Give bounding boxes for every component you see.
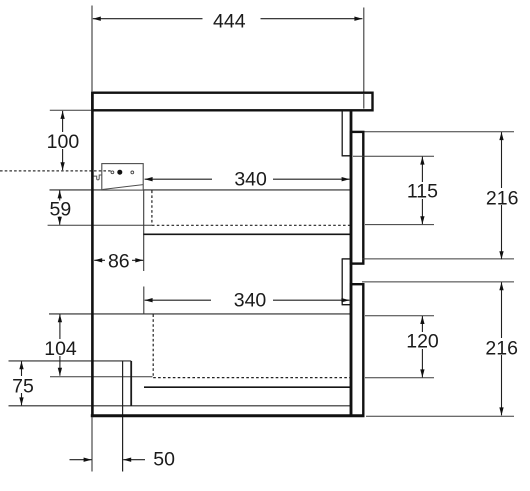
carcass front vertical bbox=[350, 111, 353, 417]
dimension 75 bbox=[21, 361, 23, 405]
dimension 86 bbox=[94, 259, 143, 261]
wall bracket diagonal bbox=[102, 185, 143, 190]
svg-text:340: 340 bbox=[234, 290, 267, 312]
side strip R1 below countertop bbox=[341, 112, 343, 156]
extension line 444 left bbox=[91, 6, 93, 92]
dimension 340 second bbox=[145, 299, 350, 301]
dimension 115 bbox=[421, 157, 423, 225]
dimension 104 bbox=[59, 314, 61, 375]
drawer2 rail line bbox=[144, 386, 351, 388]
extension 216 first bottom / strip R2 top bbox=[342, 258, 351, 260]
bracket screw filled bbox=[117, 170, 122, 175]
extension line 340 second left bbox=[143, 287, 145, 315]
extension line countertop bottom left bbox=[50, 109, 91, 111]
extension line 444 right through countertop bbox=[363, 94, 365, 109]
plinth bar right edge bbox=[130, 361, 132, 406]
wall bracket body bbox=[102, 164, 143, 191]
countertop bbox=[92, 93, 372, 111]
dimension 50 left arrow bbox=[70, 459, 92, 461]
label 100 bbox=[43, 132, 81, 149]
label 340 second bbox=[211, 291, 273, 309]
label 115 bbox=[404, 182, 441, 199]
extension 216 first bottom right part bbox=[363, 258, 515, 260]
side strip R2 between drawers bbox=[341, 259, 343, 305]
extension line 444 right bbox=[363, 8, 365, 109]
label 340 first bbox=[212, 170, 273, 188]
dimension 100 bbox=[62, 111, 64, 170]
label 216 second bbox=[485, 338, 523, 355]
dimension 216 first bbox=[501, 132, 503, 259]
label 444 bbox=[203, 11, 261, 29]
bottom panel top edge bbox=[9, 405, 352, 407]
svg-text:216: 216 bbox=[486, 187, 519, 209]
drawer1 rim line bbox=[50, 189, 352, 191]
cabinet bottom bbox=[91, 414, 365, 417]
svg-text:216: 216 bbox=[485, 338, 518, 360]
bracket hook bbox=[94, 175, 102, 180]
extension 115 bottom bbox=[365, 224, 434, 226]
bracket hole right bbox=[131, 171, 134, 174]
drawer1 dashed box bbox=[152, 191, 351, 226]
extension line 50 left bbox=[91, 417, 93, 471]
svg-text:115: 115 bbox=[407, 181, 438, 203]
dimension 444 bbox=[93, 18, 363, 20]
extension line 50 right / plinth bar left edge bbox=[122, 361, 124, 472]
extension line 75 top / plinth bar top bbox=[9, 360, 132, 362]
label 216 first bbox=[485, 188, 523, 205]
svg-text:340: 340 bbox=[234, 169, 267, 191]
extension 216 second top bbox=[362, 281, 514, 283]
extension 120 bottom bbox=[365, 377, 434, 379]
svg-text:100: 100 bbox=[47, 131, 80, 153]
dimension 50 right arrow bbox=[123, 459, 145, 461]
dimension 340 first bbox=[145, 178, 350, 180]
bracket hole left bbox=[111, 171, 114, 174]
svg-text:444: 444 bbox=[213, 10, 246, 32]
extension line 59 bottom bbox=[48, 224, 152, 226]
label 59 bbox=[48, 201, 74, 217]
extension line 104 bottom bbox=[50, 376, 153, 378]
extension line 86 right bbox=[143, 191, 145, 272]
svg-text:75: 75 bbox=[12, 375, 34, 397]
label 86 bbox=[105, 252, 132, 269]
extension 115 top bbox=[353, 155, 434, 157]
extension 216 second bottom bbox=[366, 415, 514, 417]
label 75 bbox=[10, 376, 37, 393]
dimension 216 second bbox=[501, 282, 503, 415]
drawer front D1 bbox=[351, 132, 363, 264]
svg-text:86: 86 bbox=[108, 250, 130, 272]
label 104 bbox=[42, 339, 80, 356]
dimension 120 bbox=[421, 316, 423, 377]
svg-text:120: 120 bbox=[406, 331, 439, 353]
drawer2 rim line bbox=[49, 313, 351, 315]
label 120 bbox=[404, 332, 441, 349]
extension 120 top bbox=[365, 315, 434, 317]
drawer front D2 bbox=[351, 284, 363, 416]
svg-text:104: 104 bbox=[44, 338, 77, 360]
drawer1 rail line bbox=[143, 233, 351, 235]
wall dotted line bbox=[0, 170, 112, 172]
drawer2 dashed box bbox=[153, 314, 352, 377]
extension 216 first top bbox=[364, 131, 514, 133]
label 50 bbox=[150, 451, 178, 468]
svg-text:59: 59 bbox=[50, 198, 72, 220]
cabinet back panel bbox=[91, 92, 94, 418]
dimension 59 bbox=[59, 190, 61, 224]
svg-text:50: 50 bbox=[153, 449, 175, 471]
